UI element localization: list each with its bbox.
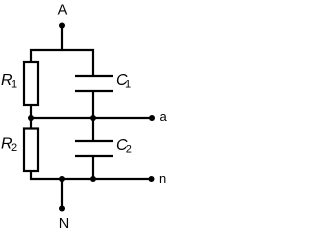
wire: R1 bottom to R2 top [30, 105, 32, 129]
wire: terminal A stub down to top rail [61, 26, 63, 51]
resistor R1 [24, 62, 38, 105]
capacitor C1 top plate [75, 75, 113, 77]
resistor R2 [24, 129, 38, 172]
wire: top rail with corner drops to R1 and C1 [31, 50, 93, 76]
svg-text:2: 2 [126, 144, 132, 156]
svg-text:1: 1 [125, 79, 131, 91]
wire: C2 bottom plate to bottom rail [92, 156, 94, 179]
node a terminal dot [149, 115, 155, 121]
wire: R2 bottom corner and bottom rail to node n [31, 171, 152, 179]
capacitor C2 bottom plate [75, 155, 113, 157]
junction dot at N stub on bottom rail [59, 176, 65, 182]
svg-text:2: 2 [11, 142, 17, 154]
capacitor C2 top plate [75, 140, 113, 142]
junction dot at R1/R2 and middle rail [28, 115, 34, 121]
wire: bottom rail to terminal N stub [61, 179, 63, 209]
wire: C2 top stub from middle rail [92, 118, 94, 141]
node A terminal dot [59, 23, 65, 29]
node N terminal dot [59, 206, 65, 212]
svg-text:a: a [160, 109, 168, 124]
svg-text:1: 1 [11, 79, 17, 91]
wire: middle rail to node a [31, 117, 152, 119]
junction dot at C1/C2 and middle rail [90, 115, 96, 121]
svg-text:N: N [59, 216, 69, 232]
junction dot at C2 branch on bottom rail [90, 176, 96, 182]
capacitor C1 bottom plate [75, 90, 113, 92]
svg-text:n: n [159, 171, 166, 186]
node n terminal dot [149, 176, 155, 182]
wire: C1 bottom plate to middle rail [92, 91, 94, 118]
svg-text:A: A [58, 3, 68, 19]
